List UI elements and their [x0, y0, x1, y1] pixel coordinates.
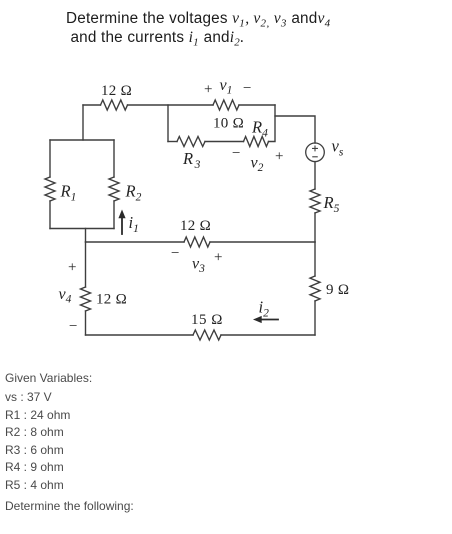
- wire: R5 down to middle-wire junction: [314, 213, 316, 242]
- label 9 ohm: [326, 282, 349, 298]
- current arrow i1: [118, 210, 125, 235]
- svg-text:−: −: [69, 319, 77, 335]
- resistor R3: [177, 137, 205, 147]
- wire: top-left horizontal segment: [83, 104, 101, 106]
- wire: middle horizontal right segment: [210, 241, 315, 243]
- svg-text:v4: v4: [59, 286, 72, 306]
- label - (v4 minus): [69, 319, 77, 335]
- given variables text block: [5, 371, 92, 385]
- wire: R2 branch top: [113, 140, 115, 177]
- wire: middle junction down to 9ohm: [314, 242, 316, 276]
- resistor 12ohm top-left: [101, 100, 128, 110]
- svg-text:12 Ω: 12 Ω: [180, 218, 211, 234]
- svg-text:v1: v1: [220, 77, 233, 97]
- wire: R1R2 box top edge: [50, 139, 114, 141]
- resistor 15ohm: [193, 330, 221, 340]
- label 12 ohm (middle resistor): [180, 218, 211, 234]
- label R1: [60, 182, 77, 204]
- svg-text:−: −: [171, 246, 179, 262]
- svg-text:15 Ω: 15 Ω: [191, 312, 223, 328]
- wire: middle horizontal left segment: [86, 241, 185, 243]
- svg-text:−: −: [232, 146, 240, 162]
- svg-text:v3: v3: [192, 256, 205, 276]
- wire: tap to source vs: [275, 116, 315, 143]
- svg-text:vs: vs: [332, 137, 344, 159]
- resistor R5: [310, 189, 320, 213]
- wire: R1 branch bottom: [49, 201, 51, 229]
- wire: R1R2 box bottom edge: [50, 228, 114, 230]
- wire: R1 branch top: [49, 140, 51, 177]
- svg-text:12 Ω: 12 Ω: [101, 83, 132, 99]
- svg-text:i2: i2: [259, 298, 270, 320]
- voltage source Vs: [306, 143, 325, 162]
- label - v3 + (middle): [171, 246, 222, 276]
- wire: box bottom down to middle-wire junction: [85, 229, 87, 243]
- wire: source to R5: [314, 162, 316, 189]
- svg-text:+: +: [68, 260, 76, 276]
- svg-text:10 Ω: 10 Ω: [213, 116, 244, 132]
- wire: between R3 and R4: [205, 141, 244, 143]
- wire: top right segment to corner: [239, 104, 275, 106]
- svg-text:−: −: [243, 81, 251, 97]
- resistor 10ohm (v1): [213, 100, 239, 110]
- resistor R2: [109, 177, 119, 201]
- svg-text:12 Ω: 12 Ω: [96, 292, 127, 308]
- wire: V4 resistor to bottom-left corner: [85, 311, 87, 335]
- svg-text:+: +: [204, 82, 212, 98]
- label 12 ohm (v4 resistor): [96, 292, 127, 308]
- svg-text:+: +: [214, 250, 222, 266]
- current arrow i2: [253, 316, 278, 323]
- svg-text:v2: v2: [251, 155, 264, 175]
- wire: top middle segment to node B: [128, 104, 214, 106]
- svg-text:R3: R3: [182, 149, 201, 171]
- label 10 ohm: [213, 116, 244, 132]
- label - v2 + (below R4): [232, 146, 283, 175]
- label 15 ohm: [191, 312, 223, 328]
- wire: lower branch left stub: [168, 141, 177, 143]
- label + v1 - (top): [204, 77, 251, 98]
- label vs (source): [332, 137, 344, 159]
- svg-text:R1: R1: [60, 182, 77, 204]
- wire: left vertical of R3-R4 branch: [167, 105, 169, 142]
- resistor 12ohm vertical (v4): [81, 287, 91, 311]
- resistor 12ohm middle (v3): [184, 237, 210, 247]
- label i1 (current): [129, 213, 139, 235]
- label R2: [125, 182, 142, 204]
- label R4: [251, 118, 268, 140]
- wire: left vertical from top wire into R1R2 box: [82, 105, 84, 140]
- resistor R1: [45, 177, 55, 201]
- label 12 ohm (top-left resistor): [101, 83, 132, 99]
- label v4: [59, 286, 72, 306]
- resistor 9ohm: [310, 276, 320, 301]
- svg-text:i1: i1: [129, 213, 139, 235]
- svg-text:9 Ω: 9 Ω: [326, 282, 349, 298]
- label R3: [182, 149, 201, 171]
- wire: junction down to V4 resistor: [85, 242, 87, 287]
- wire: lower branch right stub and right vertical: [269, 105, 276, 142]
- resistor R4: [244, 137, 269, 147]
- svg-text:R2: R2: [125, 182, 142, 204]
- wire: bottom right horizontal segment: [221, 334, 315, 336]
- svg-text:R5: R5: [323, 193, 340, 215]
- label i2 (current): [259, 298, 270, 320]
- svg-text:R4: R4: [251, 118, 268, 140]
- wire: bottom left horizontal segment: [86, 334, 194, 336]
- svg-text:+: +: [275, 149, 283, 165]
- wire: 9ohm to bottom right corner: [314, 301, 316, 335]
- wire: R2 branch bottom: [113, 201, 115, 229]
- label + (v4 plus): [68, 260, 76, 276]
- title text: [66, 9, 396, 47]
- label R5: [323, 193, 340, 215]
